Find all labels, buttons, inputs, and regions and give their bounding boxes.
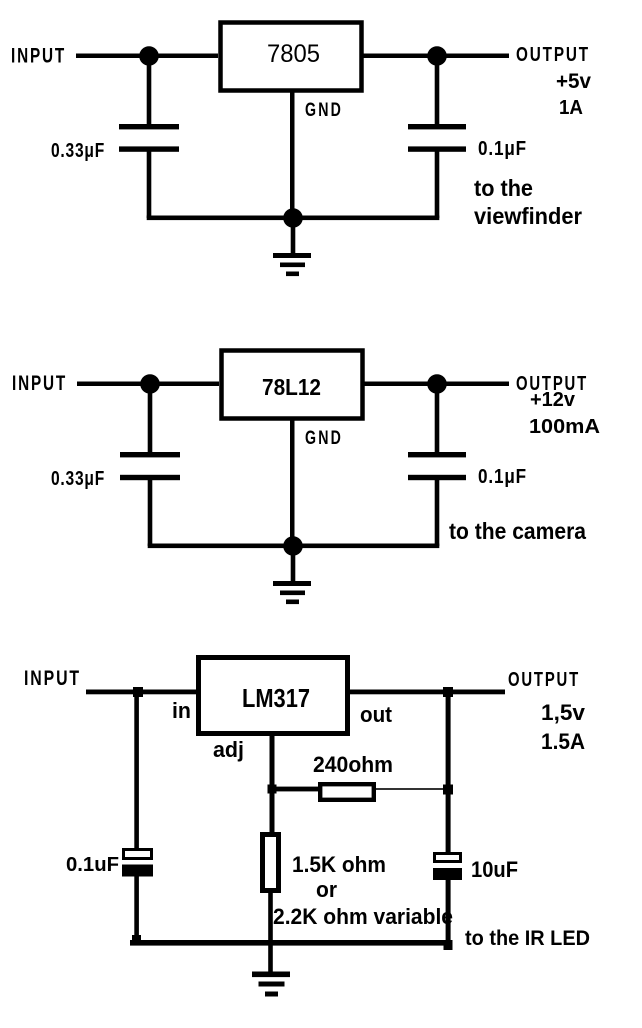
wire R1 to output branch (thin) [376, 788, 447, 790]
svg-text:INPUT: INPUT [24, 667, 81, 690]
wire input to regulator (circuit 1) [76, 54, 218, 59]
svg-text:2.2K ohm variable: 2.2K ohm variable [273, 904, 453, 929]
svg-text:to the: to the [474, 175, 533, 201]
wire output junction down to C4 [435, 384, 440, 452]
wire ground rail (circuit 3) [130, 940, 452, 946]
svg-text:0.1uF: 0.1uF [66, 854, 119, 876]
wire output stub (circuit 1) [437, 54, 509, 59]
junction R1 output branch [443, 785, 453, 795]
svg-text:to the camera: to the camera [449, 518, 586, 544]
capacitor C1 0.33uF plates [119, 124, 179, 129]
junction ground rail left corner [132, 935, 141, 943]
junction output node (circuit 3) [443, 687, 453, 697]
wire input to regulator (circuit 2) [77, 382, 219, 387]
svg-text:adj: adj [213, 737, 244, 762]
wire junction to ground symbol (circuit 2) [291, 546, 296, 582]
svg-text:in: in [172, 698, 191, 723]
wire output junction down to C2 [435, 56, 440, 124]
junction ground rail (circuit 1) [283, 208, 303, 228]
svg-text:1,5v: 1,5v [541, 700, 586, 725]
wire C5 to ground rail [134, 876, 139, 943]
svg-text:INPUT: INPUT [11, 45, 66, 68]
svg-text:LM317: LM317 [242, 683, 310, 713]
svg-text:OUTPUT: OUTPUT [508, 668, 580, 691]
svg-text:78L12: 78L12 [262, 374, 321, 400]
wire C2 to ground rail [435, 151, 440, 218]
wire adj junction to R1 [272, 787, 318, 792]
junction ground rail right end [444, 940, 453, 950]
svg-text:240ohm: 240ohm [313, 752, 393, 777]
regulator U2 78L12 box [222, 351, 363, 419]
svg-text:100mA: 100mA [529, 416, 600, 438]
svg-text:out: out [360, 702, 393, 727]
capacitor C4 0.1uF plates [408, 452, 466, 457]
svg-text:1.5K ohm: 1.5K ohm [292, 852, 386, 877]
junction input node (circuit 3) [133, 687, 143, 697]
svg-text:OUTPUT: OUTPUT [516, 43, 590, 66]
svg-text:viewfinder: viewfinder [474, 203, 582, 229]
capacitor C5 0.1uF electrolytic [124, 850, 152, 859]
svg-text:0.1μF: 0.1μF [478, 466, 527, 488]
wire regulator to output (circuit 3) [348, 690, 505, 695]
wire ground rail (circuit 1) [147, 216, 440, 221]
wire R2 to ground rail [268, 890, 273, 945]
svg-text:+12v: +12v [530, 389, 576, 411]
svg-text:to the IR LED: to the IR LED [465, 927, 590, 950]
svg-text:0.33μF: 0.33μF [51, 468, 105, 490]
junction input node (circuit 2) [140, 374, 160, 394]
svg-text:GND: GND [305, 427, 343, 449]
capacitor C6 10uF electrolytic [435, 854, 461, 862]
regulator U1 7805 box [221, 23, 362, 91]
resistor R2 1.5K box [263, 835, 279, 891]
ground symbol (circuit 2) [273, 581, 311, 586]
wire output stub (circuit 2) [437, 382, 509, 387]
wire GND pin down (circuit 1) [290, 90, 295, 218]
wire C4 to ground rail [435, 479, 440, 546]
svg-text:7805: 7805 [267, 40, 320, 68]
wire regulator to output junction (circuit 2) [363, 382, 438, 387]
wire ground rail (circuit 2) [148, 544, 440, 549]
ground symbol (circuit 3) [252, 972, 290, 978]
wire C1 to ground rail [147, 151, 152, 218]
wire adj pin down [270, 733, 275, 834]
wire C6 to ground rail [446, 880, 451, 945]
svg-text:0.33μF: 0.33μF [51, 140, 105, 162]
wire rail to ground symbol (circuit 3) [268, 945, 273, 974]
junction output node (circuit 1) [427, 46, 447, 66]
svg-text:GND: GND [305, 99, 343, 121]
ground symbol (circuit 1) [273, 253, 311, 258]
junction input node (circuit 1) [139, 46, 159, 66]
svg-text:0.1μF: 0.1μF [478, 138, 527, 160]
resistor R1 240ohm box [320, 784, 374, 800]
junction output node (circuit 2) [427, 374, 447, 394]
junction adj node [268, 785, 277, 794]
svg-text:INPUT: INPUT [12, 372, 67, 395]
junction ground rail (circuit 2) [283, 536, 303, 556]
wire GND pin down (circuit 2) [290, 418, 295, 546]
svg-text:or: or [316, 877, 337, 902]
capacitor C2 0.1uF plates [408, 124, 466, 129]
wire regulator to output junction (circuit 1) [362, 54, 437, 59]
regulator U3 LM317 box [199, 658, 348, 734]
wire input junction down to C5 [134, 692, 139, 850]
wire C3 to ground rail [148, 479, 153, 546]
svg-text:1A: 1A [559, 97, 583, 119]
wire input junction down to C1 [147, 56, 152, 124]
wire input to regulator (circuit 3) [86, 690, 196, 695]
wire output junction down to C6 [446, 692, 451, 853]
svg-text:10uF: 10uF [471, 857, 518, 882]
capacitor C3 0.33uF plates [120, 452, 180, 457]
svg-text:1.5A: 1.5A [541, 729, 585, 754]
svg-text:+5v: +5v [556, 70, 591, 93]
wire junction to ground symbol (circuit 1) [291, 218, 296, 254]
wire input junction down to C3 [148, 384, 153, 452]
